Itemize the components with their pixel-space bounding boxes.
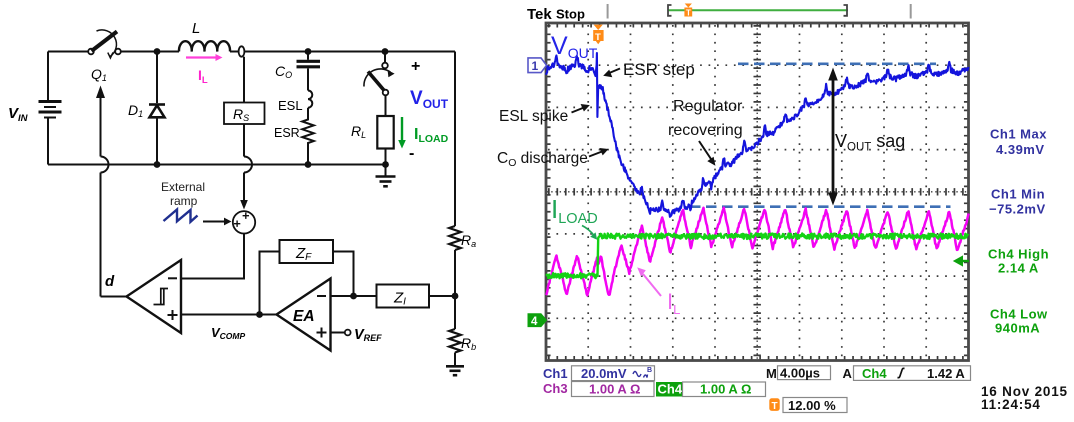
svg-text:1.00 A Ω: 1.00 A Ω: [700, 382, 751, 397]
impedance ZI: [377, 285, 430, 308]
top bar ticks: [607, 4, 609, 19]
wire Vin left: [47, 52, 49, 102]
wire top rail right: [230, 51, 455, 53]
svg-text:Q1: Q1: [91, 66, 107, 83]
node dots power stage: [154, 48, 389, 168]
svg-text:11:24:54: 11:24:54: [981, 397, 1041, 412]
dashed reference line bottom: [690, 205, 951, 208]
acquisition window bar: [668, 9, 848, 11]
inductor ESL: [308, 91, 312, 108]
wire top rail mid: [121, 51, 179, 53]
wire ZF to minus node: [333, 252, 354, 297]
wire top rail left: [48, 51, 88, 53]
switch load: [364, 54, 395, 95]
wire Ra to Rb: [454, 250, 456, 329]
svg-text:+: +: [411, 58, 420, 75]
measurements column: [989, 127, 1047, 217]
arrowhead into summer: [240, 200, 248, 210]
comparator U1: [127, 260, 182, 333]
error amp EA: [277, 279, 331, 351]
svg-text:B: B: [647, 367, 652, 374]
svg-text:D1: D1: [128, 102, 143, 119]
EA minus: [317, 295, 326, 297]
scope screen: [546, 23, 969, 361]
wire bottom rail: [48, 164, 386, 166]
wire ZI to divider: [429, 295, 455, 297]
svg-text:VOUT sag: VOUT sag: [835, 131, 905, 154]
svg-text:VCOMP: VCOMP: [211, 325, 246, 341]
svg-text:ILOAD: ILOAD: [551, 194, 598, 227]
wire VCOMP to ZF: [260, 252, 280, 315]
wire comparator plus VCOMP: [181, 314, 277, 316]
readout trigger source: [854, 366, 971, 381]
resistor ESR: [302, 108, 314, 165]
load resistor RL: [377, 95, 393, 164]
current arrow ILOAD: [398, 117, 406, 149]
current arrow IL: [186, 54, 223, 61]
svg-text:IL: IL: [198, 67, 208, 86]
sense resistor RS: [224, 57, 265, 124]
readout Ch3 scale: [543, 381, 654, 397]
readout M time: [766, 366, 853, 382]
svg-text:VREF: VREF: [354, 327, 382, 343]
wire comparator out: [101, 296, 127, 298]
sag double arrow: [828, 68, 838, 206]
svg-text:ESR step: ESR step: [623, 60, 695, 79]
external ramp sawtooth: [164, 210, 198, 222]
ramp arrow: [203, 218, 232, 226]
wire RS down with hop: [244, 124, 252, 201]
switch Q1: [88, 30, 121, 58]
readout Ch1 scale: [543, 366, 655, 381]
svg-text:Stop: Stop: [556, 7, 585, 22]
svg-text:4.39mV: 4.39mV: [996, 142, 1045, 157]
svg-text:IL: IL: [667, 289, 680, 317]
battery VIN: [39, 102, 62, 118]
impedance ZF: [280, 240, 334, 263]
wire summer to comparator minus: [181, 234, 244, 279]
svg-text:−75.2mV: −75.2mV: [989, 202, 1046, 217]
svg-text:Ch4 Low: Ch4 Low: [990, 307, 1048, 322]
node minus dot: [350, 293, 357, 300]
svg-text:M: M: [766, 366, 777, 381]
svg-text:T: T: [595, 32, 601, 43]
svg-text:2.14 A: 2.14 A: [998, 261, 1039, 276]
svg-text:Ch1 Max: Ch1 Max: [990, 127, 1047, 142]
readout Ch4 scale: [656, 382, 766, 397]
trace IL magenta: [546, 208, 969, 296]
svg-text:Ch4 High: Ch4 High: [988, 247, 1049, 262]
svg-text:CO discharge: CO discharge: [497, 150, 588, 169]
diode D1: [149, 52, 165, 165]
svg-text:Ra: Ra: [461, 232, 476, 249]
inductor L: [179, 41, 230, 51]
wire right feedback drop: [454, 52, 456, 227]
datetime: [981, 384, 1068, 412]
svg-text:-: -: [409, 145, 414, 162]
svg-text:T: T: [686, 9, 691, 18]
svg-text:Regulator: Regulator: [673, 98, 743, 115]
svg-text:Ch3: Ch3: [543, 381, 568, 396]
channel 1 marker: [528, 58, 547, 73]
svg-text:T: T: [772, 401, 778, 412]
comparator minus: [168, 277, 177, 279]
svg-text:L: L: [192, 20, 200, 37]
terminal VREF: [345, 330, 351, 336]
EA plus: [317, 328, 327, 338]
svg-text:4.00µs: 4.00µs: [780, 366, 820, 381]
svg-text:ramp: ramp: [170, 194, 198, 208]
ground Rb: [446, 353, 464, 376]
top bar trigger T icon: [684, 4, 692, 18]
svg-text:Ch1: Ch1: [543, 366, 568, 381]
node VCOMP dot: [256, 311, 263, 318]
wire d up with hop: [101, 97, 109, 297]
node divider dot: [452, 293, 459, 300]
svg-text:CO: CO: [275, 63, 292, 80]
svg-text:1.42 A: 1.42 A: [927, 366, 965, 381]
svg-text:EA: EA: [293, 308, 315, 325]
svg-text:Ch4: Ch4: [862, 366, 887, 381]
trace VOUT blue: [546, 53, 969, 217]
svg-text:VIN: VIN: [8, 105, 29, 124]
svg-text:ESL: ESL: [278, 98, 303, 113]
svg-text:1.00 A Ω: 1.00 A Ω: [589, 382, 640, 397]
IL pointer arrow: [637, 267, 661, 296]
svg-text:External: External: [161, 180, 205, 194]
channel 4 marker: [528, 314, 547, 328]
ch1 coupling glyphs: [633, 372, 648, 378]
wire EA plus VREF: [331, 332, 345, 334]
svg-text:ESR: ESR: [274, 126, 300, 140]
comparator plus: [168, 310, 178, 320]
dashed reference line top: [738, 62, 936, 65]
svg-text:VOUT: VOUT: [551, 32, 598, 61]
svg-text:A: A: [843, 366, 853, 381]
ground RL: [376, 165, 396, 187]
svg-text:1: 1: [532, 59, 539, 73]
readout trigger position: [769, 398, 847, 413]
svg-text:Ch4: Ch4: [658, 382, 683, 397]
svg-text:4: 4: [531, 316, 538, 328]
ILOAD pointer arrow: [582, 226, 597, 240]
arrowhead to Q1: [96, 86, 105, 99]
svg-text:RL: RL: [351, 123, 366, 140]
svg-text:940mA: 940mA: [995, 321, 1040, 336]
capacitor CO: [297, 52, 321, 91]
resistor Ra: [449, 226, 461, 250]
resistor Rb: [449, 329, 461, 353]
wire Vin bottom: [47, 118, 49, 165]
trigger position marker: [593, 25, 603, 45]
svg-text:20.0mV: 20.0mV: [581, 366, 627, 381]
trace ILOAD green: [546, 234, 969, 279]
svg-text:VOUT: VOUT: [410, 88, 449, 111]
summing junction: [233, 211, 255, 233]
svg-text:recovering: recovering: [668, 122, 743, 139]
svg-text:Rb: Rb: [461, 335, 476, 352]
svg-text:d: d: [105, 273, 115, 290]
svg-text:ESL spike: ESL spike: [499, 108, 568, 125]
ch4 level arrow right: [953, 255, 969, 266]
svg-text:ILOAD: ILOAD: [414, 126, 449, 145]
wire EA minus input: [331, 295, 377, 297]
svg-text:Ch1 Min: Ch1 Min: [991, 187, 1045, 202]
svg-text:12.00 %: 12.00 %: [788, 398, 836, 413]
node probe ellipse: [239, 46, 245, 56]
svg-text:Tek: Tek: [527, 6, 552, 23]
hysteresis glyph: [154, 289, 169, 305]
